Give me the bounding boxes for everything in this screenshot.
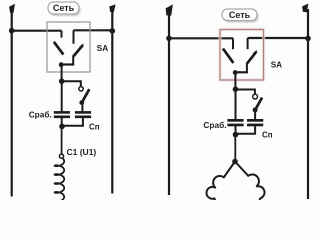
wire Сраб bottom R [235, 126, 237, 135]
switch SA right blade [73, 45, 83, 57]
wire main line to capacitors [61, 81, 63, 111]
Сеть button shadow R [224, 11, 259, 23]
wire switch bottom bar R [235, 71, 248, 73]
node dot right rail [110, 28, 116, 34]
wire blade bottom vertical R [246, 63, 248, 72]
switch SA left pole fixed stub [61, 31, 63, 38]
wire lever to Cп capacitor [81, 103, 83, 112]
wire switch output down [61, 65, 63, 81]
Сеть button R [222, 9, 257, 21]
node dot lever bottom R [253, 107, 258, 112]
node dot lever bottom [79, 100, 84, 105]
capacitor Сраб plates [54, 111, 70, 114]
wire blade bottom vertical [72, 56, 74, 65]
Сеть button [48, 2, 79, 14]
arrow mains left [9, 4, 15, 13]
node dot left rail [9, 28, 15, 34]
node dot switch output [59, 62, 64, 67]
svg-text:Сп: Сп [262, 131, 273, 140]
node dot branch junction [59, 78, 65, 84]
node dot switch output R [233, 70, 238, 75]
capacitor Сраб plates R [227, 119, 243, 122]
node dot capacitors bottom [59, 124, 65, 130]
wire branch to starting contact [62, 81, 81, 86]
inductor winding C1 coil [55, 158, 65, 201]
Сеть button shadow [50, 4, 81, 16]
arrowhead on SA blade [79, 43, 84, 48]
SA enclosure box (red) halo [220, 30, 264, 81]
wire main line down to motor R [234, 135, 236, 161]
wire lever to Cп capacitor R [254, 110, 256, 119]
arrow mains right of left circuit [109, 4, 115, 12]
starting contact lever [82, 89, 90, 103]
wire right rail R [307, 9, 309, 199]
switch SA left blade [54, 42, 64, 55]
capacitor Сп plates R [247, 119, 263, 122]
svg-text:С1 (U1): С1 (U1) [67, 147, 97, 157]
wire top horizontal right segment [74, 29, 113, 31]
wire switch bottom bar [61, 63, 74, 65]
wire top horizontal right segment R [248, 37, 308, 39]
capacitor Сп plates [75, 111, 91, 114]
wire left rail R [168, 9, 170, 195]
svg-text:Сеть: Сеть [53, 3, 75, 13]
wire left rail L [11, 9, 13, 197]
wire Сп bottom L-shape R [236, 126, 256, 134]
wire switch output down R [234, 73, 236, 90]
wire Сраб bottom [61, 118, 63, 127]
starting contact circle [79, 87, 83, 91]
svg-text:Сраб.: Сраб. [203, 120, 226, 130]
motor winding right slope [235, 162, 265, 202]
SA enclosure box (red) [220, 30, 264, 81]
node dot right rail R [305, 36, 311, 42]
switch SA right pole fixed stub [73, 30, 75, 44]
svg-text:Сраб.: Сраб. [29, 110, 52, 120]
arrow mains right R [302, 4, 308, 13]
svg-text:SA: SA [97, 44, 108, 53]
switch SA left pole fixed stub R [232, 38, 234, 49]
arrow mains left R [166, 4, 173, 15]
wire main line down to node C1 [61, 126, 63, 154]
wire branch to starting contact R [236, 90, 255, 95]
starting contact circle R [253, 94, 258, 99]
node dot capacitors bottom R [233, 132, 239, 138]
node C1 circle [59, 154, 63, 158]
svg-text:Сп: Сп [89, 123, 100, 132]
wire top horizontal left segment R [169, 37, 233, 39]
SA enclosure box (gray) [47, 22, 90, 72]
svg-text:Сеть: Сеть [229, 10, 251, 20]
switch SA right pole fixed stub R [247, 38, 249, 49]
wire right rail L [111, 9, 113, 194]
switch SA right blade R [247, 52, 257, 64]
wire main line to capacitors R [235, 89, 237, 119]
starting contact lever R [255, 98, 262, 110]
svg-text:SA: SA [271, 61, 282, 70]
wire top horizontal left segment [12, 30, 62, 32]
node dot branch junction R [233, 86, 239, 92]
node dot left rail R [166, 36, 172, 42]
arrowhead on SA blade R [253, 50, 258, 55]
motor winding left slope [206, 162, 235, 202]
node dot motor apex [232, 159, 238, 165]
switch SA left blade R [223, 49, 234, 63]
wire Сп bottom L-shape [62, 118, 83, 126]
